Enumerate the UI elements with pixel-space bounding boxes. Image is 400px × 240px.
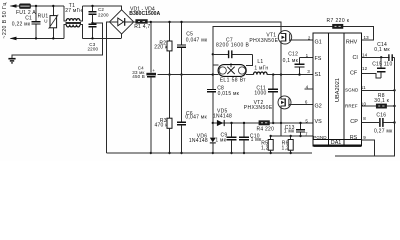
pin 12 CF wire <box>362 74 382 78</box>
svg-text:CI: CI <box>353 55 358 61</box>
svg-text:470 к: 470 к <box>155 122 169 128</box>
bridge rectifier VD1-VD4 <box>110 6 161 34</box>
diode VD6 <box>189 123 216 153</box>
svg-text:3: 3 <box>307 69 310 74</box>
svg-text:PHX3N50E: PHX3N50E <box>249 38 278 44</box>
svg-text:RREF: RREF <box>345 103 358 108</box>
wire DC+ rail <box>147 22 281 31</box>
svg-text:0,22 мк: 0,22 мк <box>12 22 31 28</box>
svg-text:VS: VS <box>315 119 323 125</box>
inductor L1 <box>246 59 313 75</box>
svg-text:L1: L1 <box>257 59 263 65</box>
wire right bus <box>362 57 395 156</box>
wire PGND line to R5 R6 tops <box>271 135 313 137</box>
svg-text:1N4148: 1N4148 <box>213 114 232 120</box>
svg-text:B380C1500A: B380C1500A <box>129 11 160 17</box>
wire bridge minus stub <box>107 22 110 153</box>
IC DA1 UBA2021 <box>313 33 362 147</box>
svg-text:PGND: PGND <box>313 135 327 140</box>
node C16 right <box>393 121 395 123</box>
svg-text:R4 220: R4 220 <box>257 127 275 133</box>
svg-text:1,2: 1,2 <box>282 145 290 151</box>
svg-text:2: 2 <box>308 35 311 40</box>
svg-text:0,015 мк: 0,015 мк <box>218 91 240 97</box>
node R2 bottom / midpoint line <box>168 73 170 75</box>
wire C7 to lamp right top <box>246 54 252 65</box>
svg-text:6: 6 <box>305 99 308 104</box>
resistor R3 <box>155 75 173 153</box>
node R2 top <box>168 21 170 23</box>
wire lamp left pins <box>213 64 219 66</box>
ground <box>8 59 15 63</box>
capacitor C5 <box>177 22 208 75</box>
svg-text:1 мГн: 1 мГн <box>254 65 268 71</box>
svg-text:RHV: RHV <box>346 40 358 46</box>
svg-text:G1: G1 <box>315 40 322 46</box>
lamp EL1 <box>218 63 246 83</box>
node C6 bottom <box>180 152 182 154</box>
svg-text:14: 14 <box>362 52 368 57</box>
svg-text:0,047 мк: 0,047 мк <box>186 37 208 43</box>
svg-text:UBA2021: UBA2021 <box>335 78 341 102</box>
svg-text:U: U <box>44 19 47 24</box>
svg-text:CP: CP <box>350 119 358 125</box>
svg-text:1: 1 <box>306 53 309 58</box>
node SGND bus <box>393 89 395 91</box>
node C5 top <box>180 21 182 23</box>
svg-text:R7 220 к: R7 220 к <box>327 18 350 24</box>
resistor R8 <box>374 93 389 108</box>
svg-text:1 мк: 1 мк <box>251 137 262 143</box>
capacitor C13 <box>284 123 305 137</box>
svg-text:FS: FS <box>315 56 322 62</box>
capacitor C6 <box>177 75 207 153</box>
svg-text:30,1 к: 30,1 к <box>374 98 389 104</box>
node RU1 bottom <box>52 37 54 39</box>
svg-text:DA1: DA1 <box>331 140 342 146</box>
svg-text:5: 5 <box>305 118 308 123</box>
svg-text:1000: 1000 <box>254 90 266 96</box>
node C11 top <box>272 73 274 75</box>
pin 14 CI wire <box>362 56 395 58</box>
node C7 branch <box>212 53 214 55</box>
wire bottom rail T1 to bridge <box>82 37 121 39</box>
node C2 top <box>91 5 93 7</box>
main vertical chain x=212.8 : C7 node, lamp node, C8, VD5/VD6 node <box>212 54 214 89</box>
varistor RU1 <box>38 6 59 38</box>
capacitor C2 <box>88 6 109 24</box>
wire earth branch from C2/C3 mid <box>12 23 103 58</box>
node VT2 source <box>280 122 282 124</box>
node VD5/C8 <box>212 122 214 124</box>
svg-text:C12: C12 <box>288 52 298 58</box>
svg-text:0,27 мк: 0,27 мк <box>374 128 393 134</box>
wire main bottom rail <box>107 152 312 154</box>
transistor VT2 <box>244 75 313 136</box>
pin 10 RREF wire <box>362 105 395 107</box>
svg-text:SGND: SGND <box>345 88 359 93</box>
capacitor C3 <box>88 24 99 51</box>
node C1 top <box>35 5 37 7</box>
capacitor C8 <box>207 85 240 123</box>
transistor VT1 <box>249 31 313 75</box>
capacitor C10 <box>239 123 262 153</box>
svg-text:27 мГн: 27 мГн <box>65 8 82 14</box>
svg-text:0,1 мк: 0,1 мк <box>283 58 299 64</box>
pin 4 stub <box>305 88 314 90</box>
node input arrow bottom <box>10 37 17 41</box>
node input arrow top <box>10 4 17 8</box>
svg-text:1 мк: 1 мк <box>215 137 226 143</box>
svg-text:0,1 мк: 0,1 мк <box>374 47 390 53</box>
svg-text:RS: RS <box>350 135 358 141</box>
wire top rail T1 to bridge <box>82 6 121 10</box>
resistor R6 <box>282 136 294 153</box>
svg-text:CF: CF <box>350 71 358 77</box>
resistor R4 <box>257 121 275 133</box>
wire RS bottom stub <box>335 155 375 157</box>
wire midpoint line H9 <box>158 74 213 76</box>
svg-text:PHX3N50E: PHX3N50E <box>244 105 273 111</box>
svg-text:G2: G2 <box>315 103 322 109</box>
node half-bridge midpoint <box>280 73 282 75</box>
svg-text:13: 13 <box>364 35 370 40</box>
node VD6 bottom <box>212 152 214 154</box>
svg-text:12: 12 <box>362 66 368 71</box>
svg-text:C15 110: C15 110 <box>372 62 392 68</box>
svg-text:450 В: 450 В <box>132 74 145 79</box>
transformer T1 common-mode choke <box>64 3 82 38</box>
capacitor C11 <box>254 75 278 123</box>
svg-text:8200 1600 В: 8200 1600 В <box>216 42 250 48</box>
resistor R5 <box>261 136 273 153</box>
node RU1 top <box>52 5 54 7</box>
svg-text:9: 9 <box>363 135 366 140</box>
wire top rail left <box>11 5 65 7</box>
capacitor C7 <box>213 37 253 58</box>
svg-text:8: 8 <box>363 116 366 121</box>
pin 11 SGND wire <box>362 89 395 91</box>
node C11 bottom <box>272 122 274 124</box>
fuse FU1 <box>16 4 36 16</box>
wire U line (VS / VT2 source line) <box>213 122 313 124</box>
svg-text:R1 4,7: R1 4,7 <box>134 24 150 30</box>
resistor R2 <box>154 22 172 75</box>
svg-text:C2: C2 <box>98 7 104 12</box>
wire H3 line to R7/RHV <box>213 27 374 55</box>
capacitor C15 <box>372 57 392 78</box>
svg-text:EL1 58 Вт: EL1 58 Вт <box>220 78 247 84</box>
wire bottom rail left <box>11 37 65 39</box>
svg-text:1,2: 1,2 <box>261 145 269 151</box>
capacitor C1 <box>12 6 41 38</box>
node C5 bottom <box>180 73 182 75</box>
svg-text:220 к: 220 к <box>154 45 168 51</box>
diode VD5 <box>213 109 232 127</box>
svg-text:2200: 2200 <box>98 13 109 18</box>
node C4 bottom <box>150 152 152 154</box>
capacitor C14 <box>374 42 392 61</box>
node C3 bottom <box>91 37 93 39</box>
svg-text:1 мк: 1 мк <box>284 129 295 135</box>
node C15 top <box>380 56 382 58</box>
resistor R7 <box>327 18 350 29</box>
svg-text:S1: S1 <box>315 72 322 78</box>
svg-text:C16: C16 <box>376 112 386 118</box>
node C2 C3 mid <box>91 22 93 24</box>
svg-text:~220 В 50 Гц: ~220 В 50 Гц <box>2 2 8 38</box>
svg-text:1N4148: 1N4148 <box>189 138 208 144</box>
svg-text:2200: 2200 <box>88 47 99 52</box>
node R3 bottom <box>168 152 170 154</box>
pin 8 CP wire + capacitor C16 <box>362 112 395 134</box>
svg-text:11: 11 <box>361 85 366 90</box>
svg-text:+: + <box>152 68 155 73</box>
svg-text:0,047 мк: 0,047 мк <box>185 115 207 121</box>
resistor R1 <box>134 20 151 31</box>
node C12 bottom <box>298 73 300 75</box>
capacitor C12 <box>283 52 313 75</box>
node C4 top <box>150 21 152 23</box>
capacitor C4 electrolytic <box>132 22 156 153</box>
capacitor C9 <box>215 123 236 153</box>
node C1 bottom <box>35 37 37 39</box>
svg-text:7: 7 <box>305 132 308 137</box>
